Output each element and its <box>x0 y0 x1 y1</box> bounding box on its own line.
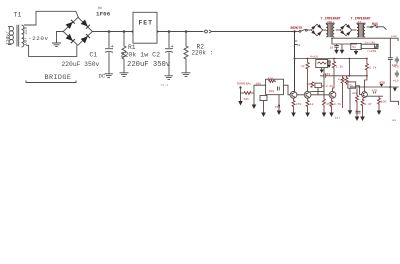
wire right column <box>389 38 391 87</box>
wire main DC rail <box>92 31 203 33</box>
wire lower bus to right edge <box>331 38 398 41</box>
capacitor C10 <box>330 44 339 50</box>
svg-text:B 2.2k: B 2.2k <box>322 84 333 88</box>
ground under C1 <box>99 73 114 80</box>
svg-text:103: 103 <box>325 72 331 76</box>
svg-text:BRIDGE: BRIDGE <box>45 74 72 82</box>
ground at bridge <box>52 32 63 47</box>
capacitor C1 <box>105 32 114 74</box>
ground arrow <box>252 105 257 110</box>
wire transformer top to bridge <box>24 11 78 25</box>
bridge rectifier B1 <box>311 24 323 36</box>
emitter resistor RE1 <box>292 98 302 112</box>
resistor R14 <box>335 76 346 120</box>
svg-text:470: 470 <box>296 102 302 106</box>
wire rail to amp section <box>212 31 297 33</box>
ground arrow <box>305 113 310 118</box>
svg-text:1F06: 1F06 <box>96 11 111 18</box>
svg-text:220uF 350v: 220uF 350v <box>62 61 100 68</box>
bracket under BRIDGE <box>26 81 76 83</box>
wire <box>336 29 340 31</box>
FET U1 <box>133 12 157 43</box>
svg-text:220uF 350v: 220uF 350v <box>127 61 171 69</box>
resistor R11 <box>332 59 343 92</box>
svg-text:4.7k: 4.7k <box>338 78 346 82</box>
svg-text:4.7k: 4.7k <box>334 102 342 106</box>
svg-text:220k 1w C2: 220k 1w C2 <box>121 52 161 59</box>
connector cable J1 <box>361 40 378 53</box>
diode arrow on output <box>379 80 385 87</box>
label T.IMPERANT (MB) <box>321 18 341 25</box>
svg-text:=10: =10 <box>393 65 399 69</box>
svg-text:MAX: MAX <box>372 22 378 26</box>
capacitor C14 <box>393 57 399 69</box>
capacitor C11 <box>327 60 331 69</box>
emitter resistor RE2 <box>306 98 314 112</box>
node <box>294 58 296 60</box>
svg-text:(a): (a) <box>335 116 341 120</box>
wire H2 bias rail <box>320 75 367 77</box>
svg-text:.1: .1 <box>354 108 358 112</box>
wire emitter bus <box>366 95 383 97</box>
svg-text:10: 10 <box>330 46 334 50</box>
svg-text:REMOTE: REMOTE <box>291 26 303 30</box>
resistor R18 <box>378 96 387 110</box>
wire transformer tap down <box>332 38 357 44</box>
svg-text:180: 180 <box>269 89 275 93</box>
capacitor C13 <box>388 58 398 67</box>
resistor R10 <box>301 59 309 92</box>
wire to Q1 base <box>284 85 291 95</box>
resistor R15 <box>345 76 348 85</box>
box P2 <box>348 82 362 115</box>
ground arrow <box>355 117 360 122</box>
node REMOTE <box>291 26 303 33</box>
node junctions on rail <box>108 30 188 33</box>
node <box>348 75 350 77</box>
switch S1 <box>295 29 312 32</box>
ground arrow <box>329 113 334 118</box>
ground arrow <box>377 111 382 116</box>
svg-text:10k: 10k <box>307 82 313 86</box>
svg-text:R1: R1 <box>128 44 136 51</box>
capacitor ticks <box>374 92 376 94</box>
transistor Q4 <box>362 89 378 98</box>
wire <box>348 59 350 76</box>
svg-text:10k: 10k <box>244 97 250 101</box>
wire V+ feed <box>295 32 301 92</box>
resistor R12 <box>365 59 377 92</box>
svg-text:220k :: 220k : <box>192 50 214 57</box>
svg-text:220: 220 <box>352 91 358 95</box>
ground arrow <box>334 50 339 54</box>
svg-text:C1: C1 <box>90 52 98 59</box>
wire <box>252 85 266 93</box>
bridge rectifier B2 <box>340 24 352 36</box>
transistor Q2 <box>304 91 311 98</box>
ground arrow <box>277 111 282 116</box>
svg-text:FET: FET <box>139 20 153 27</box>
resistor R16 <box>352 88 359 116</box>
svg-text:-220v: -220v <box>28 35 49 42</box>
transformer TR1 <box>326 23 334 37</box>
emitter resistor RE4 <box>330 98 341 112</box>
transformer T1 <box>5 12 28 48</box>
svg-text:rt.i: rt.i <box>161 83 169 87</box>
label 750 <box>275 95 281 111</box>
ground under R2 <box>182 73 191 77</box>
svg-text:1k: 1k <box>310 102 314 106</box>
ground arrow <box>261 113 266 118</box>
svg-text:ms: ms <box>392 118 396 122</box>
switch S2 <box>367 25 387 30</box>
ground arrow <box>291 113 296 118</box>
svg-text:(MB): (MB) <box>327 20 335 24</box>
resistor R1 <box>122 32 126 73</box>
svg-text:2x(1N): 2x(1N) <box>365 40 376 44</box>
capacitor C16 <box>354 108 361 114</box>
capacitor C2 <box>165 32 174 76</box>
connector on rail <box>205 30 212 33</box>
wire amp supply rail H1 <box>295 58 368 60</box>
node <box>389 86 391 88</box>
resistor R2 <box>184 32 188 73</box>
diode at right end <box>393 88 397 92</box>
input stage box A1 <box>266 77 284 95</box>
svg-text:10k: 10k <box>256 81 262 85</box>
svg-text:4x1N: 4x1N <box>310 55 318 59</box>
wire output <box>350 86 399 88</box>
ground arrow <box>340 44 345 54</box>
ground arrow <box>360 117 365 122</box>
svg-text:DC: DC <box>99 73 106 80</box>
label T.IMPERANT AT <box>351 18 371 25</box>
svg-text:470: 470 <box>268 77 274 81</box>
wire <box>323 29 326 31</box>
capacitor C15 <box>393 71 399 83</box>
wire <box>352 29 357 31</box>
resistor R13 <box>307 82 314 88</box>
svg-text:479: 479 <box>372 89 378 93</box>
wire base links <box>297 94 329 96</box>
resistor R20 <box>241 92 253 101</box>
svg-text:=10: =10 <box>393 79 399 83</box>
svg-text:TERMINAL: TERMINAL <box>237 82 252 86</box>
box U3 <box>316 60 328 74</box>
svg-text:rs232: rs232 <box>367 49 376 53</box>
ground under C2 <box>165 76 174 80</box>
input TERMINAL <box>237 82 252 106</box>
wire collector link <box>310 91 324 93</box>
svg-text:4k: 4k <box>297 43 301 47</box>
transformer TR2 <box>357 23 365 37</box>
box A2 <box>260 96 267 113</box>
bridge rectifier 1F06 <box>63 17 92 45</box>
svg-text:479: 479 <box>379 80 385 84</box>
wire transformer bottom to bridge <box>26 45 77 56</box>
svg-text:0.47: 0.47 <box>364 102 372 106</box>
transistor Q1 <box>290 91 297 98</box>
svg-text:110v/: 110v/ <box>5 31 11 45</box>
wire <box>253 93 255 105</box>
svg-text:1k: 1k <box>301 64 305 68</box>
emitter resistor R17 <box>361 97 372 117</box>
wire <box>323 68 325 99</box>
capacitor C12 <box>324 72 330 78</box>
svg-text:100: 100 <box>381 100 387 104</box>
wire <box>390 87 398 105</box>
svg-text:com: com <box>391 34 397 38</box>
svg-text:T1: T1 <box>14 12 22 19</box>
svg-text:2.2k: 2.2k <box>369 66 377 70</box>
ground arrow <box>322 113 327 118</box>
label 1F06 <box>96 6 111 18</box>
svg-text:1.2k: 1.2k <box>336 65 344 69</box>
svg-text:AT: AT <box>358 20 362 24</box>
svg-text:5v: 5v <box>352 45 356 49</box>
regulator box U2 <box>351 43 361 55</box>
ground under R1 <box>120 73 129 77</box>
resistor RE3 <box>323 99 332 113</box>
pot box P1 <box>315 83 333 95</box>
transistor Q3 <box>329 91 336 98</box>
